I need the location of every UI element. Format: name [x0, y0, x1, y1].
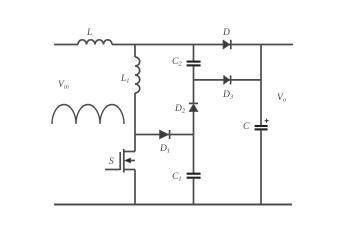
wire middle branch D2 to C1 [193, 111, 195, 173]
wire middle branch C1 to bottom rail [193, 179, 195, 205]
svg-text:C: C [243, 122, 250, 132]
wire right branch from top rail to C [260, 45, 262, 126]
inductor L1 [135, 57, 140, 93]
wire bottom rail [54, 204, 292, 206]
capacitor C [255, 126, 268, 129]
svg-text:D: D [222, 28, 230, 38]
capacitor C2 [187, 62, 201, 66]
wire D3 branch [194, 79, 262, 81]
wire left branch from top rail to L1 [134, 45, 136, 58]
svg-text:C1: C1 [172, 172, 182, 183]
plus sign of capacitor C [265, 119, 269, 123]
wire top rail left segment [54, 44, 78, 46]
diode D1 [160, 130, 170, 139]
svg-text:L: L [86, 28, 92, 38]
svg-text:L1: L1 [120, 74, 130, 85]
input waveform (rectified sine) [52, 105, 124, 125]
transistor S (mosfet) [105, 149, 135, 173]
wire D1 branch [135, 134, 194, 136]
inductor L [78, 40, 112, 45]
diode D2 [189, 103, 198, 111]
diode D3 [224, 75, 231, 84]
svg-text:Vin: Vin [58, 80, 69, 91]
diode D [223, 40, 231, 49]
wire left branch from L1 to mosfet drain [134, 93, 136, 152]
svg-text:D1: D1 [159, 144, 170, 155]
svg-text:Vo: Vo [277, 93, 287, 104]
svg-text:C2: C2 [172, 57, 182, 68]
svg-text:S: S [109, 157, 114, 167]
svg-text:D3: D3 [222, 90, 234, 101]
wire right branch C to bottom rail [260, 130, 262, 205]
wire middle branch C2 to D2 [193, 66, 195, 103]
wire top rail right segment [112, 44, 293, 46]
svg-text:D2: D2 [174, 104, 186, 115]
capacitor C1 [187, 174, 201, 178]
wire mosfet source to bottom rail [134, 170, 136, 205]
wire middle branch from top rail to C2 [193, 45, 195, 61]
